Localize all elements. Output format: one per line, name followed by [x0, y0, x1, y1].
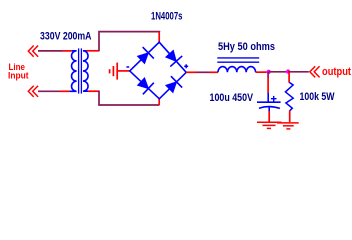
wire input top [38, 50, 72, 52]
svg-text:output: output [322, 66, 351, 78]
wire junction A down to capacitor [267, 72, 269, 93]
input arrow top [28, 46, 38, 57]
svg-text:5Hy 50 ohms: 5Hy 50 ohms [218, 41, 275, 53]
wire junction B to output [288, 71, 309, 73]
svg-text:100k 5W: 100k 5W [300, 91, 335, 103]
svg-text:330V 200mA: 330V 200mA [40, 30, 92, 42]
wire junction B down to resistor [288, 72, 290, 83]
junction dot B [286, 69, 290, 73]
wire secondary bottom to bridge [88, 91, 159, 106]
plus mark at bridge [184, 64, 188, 68]
ground (bridge minus) [110, 63, 130, 80]
capacitor C1 top plate [257, 101, 281, 103]
wire input bottom [38, 90, 69, 92]
capacitor C1 top lead [267, 93, 269, 102]
diode D3 lower-left [138, 78, 154, 94]
capacitor C1 plus mark [271, 96, 277, 102]
svg-text:Input: Input [8, 70, 29, 80]
capacitor C1 bottom plate [259, 107, 280, 109]
ground (resistor) [277, 123, 299, 129]
capacitor C1 bottom lead [268, 107, 270, 111]
transformer T1 core [79, 48, 82, 93]
diode D4 lower-right [166, 76, 182, 92]
svg-text:100u 450V: 100u 450V [210, 92, 254, 104]
inductor L1 winding [218, 67, 256, 73]
ground (capacitor) [257, 122, 282, 128]
svg-text:1N4007s: 1N4007s [151, 11, 183, 23]
wire capacitor to ground [268, 111, 270, 122]
wire secondary top to bridge [86, 32, 159, 52]
input arrow bottom [28, 86, 38, 97]
resistor R1 [285, 82, 293, 110]
minus mark at bridge [126, 66, 129, 68]
wire junction A to junction B [269, 71, 288, 73]
diode D2 upper-right [166, 50, 182, 66]
transformer T1 primary winding [69, 51, 76, 92]
wire inductor to junction A [256, 71, 267, 73]
output arrow [310, 66, 320, 77]
wire bridge to inductor [186, 71, 218, 73]
bridge rectifier outline [130, 42, 187, 99]
diode D1 upper-left [138, 47, 154, 63]
label Line Input [8, 62, 29, 81]
wire resistor to ground [289, 111, 291, 123]
transformer T1 secondary winding [83, 51, 88, 91]
inductor L1 core bars [217, 58, 259, 62]
junction dot A [267, 70, 271, 74]
